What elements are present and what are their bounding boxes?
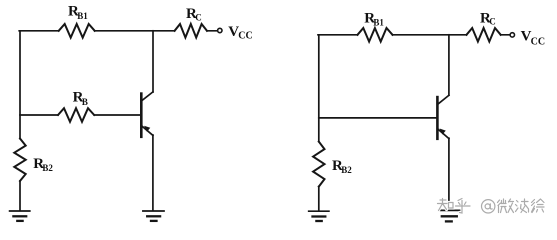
svg-text:C: C: [489, 17, 496, 27]
label RC (right): [480, 11, 496, 27]
wire: top rail (right circuit): [318, 34, 510, 36]
terminal VCC (left): [218, 28, 222, 32]
label RB2 (left): [33, 156, 53, 173]
svg-text:CC: CC: [531, 36, 545, 47]
ground (left circuit, under RB2): [10, 211, 30, 221]
svg-text:B1: B1: [373, 18, 384, 28]
resistor RC (left): [175, 24, 207, 38]
svg-text:B2: B2: [341, 165, 352, 175]
svg-text:C: C: [195, 12, 202, 22]
label VCC (left): [228, 24, 252, 42]
wire: top rail (left circuit): [19, 30, 217, 32]
terminal VCC (right): [510, 33, 514, 37]
label RB1 (right): [364, 10, 384, 27]
svg-text:CC: CC: [238, 30, 252, 41]
label RC (left): [186, 6, 202, 22]
label RB2 (right): [332, 158, 352, 175]
svg-text:B2: B2: [42, 163, 53, 173]
svg-text:B: B: [82, 97, 88, 107]
ground (left circuit, under emitter): [143, 211, 164, 221]
watermark 知乎 @微波绘: [438, 199, 545, 214]
resistor RC (right): [467, 28, 501, 42]
resistor RB2 (right, vertical): [313, 142, 324, 187]
wire: collector riser (right): [448, 35, 450, 95]
wire: emitter drop (left): [152, 135, 154, 210]
wire: collector riser (left): [152, 31, 154, 92]
resistor RB1 (right): [358, 28, 393, 42]
wire: left vertical rail (left circuit): [19, 31, 21, 211]
label RB (left): [73, 90, 88, 107]
label VCC (right): [521, 29, 545, 48]
wire: base lead (left circuit): [20, 114, 140, 116]
wire: base lead (right circuit): [319, 117, 437, 119]
transistor Q1 (left): [141, 92, 153, 137]
resistor RB1 (left): [59, 24, 95, 38]
svg-text:B1: B1: [77, 11, 88, 21]
label RB1 (left): [68, 4, 88, 21]
resistor RB (left): [58, 108, 94, 122]
ground (right circuit, under emitter): [438, 210, 460, 221]
resistor RB2 (left, vertical): [14, 139, 25, 182]
wire: emitter drop (right): [448, 138, 450, 210]
ground (right circuit, under RB2): [309, 211, 329, 221]
wire: left vertical rail (right circuit): [318, 35, 320, 211]
transistor Q2 (right): [437, 95, 449, 139]
